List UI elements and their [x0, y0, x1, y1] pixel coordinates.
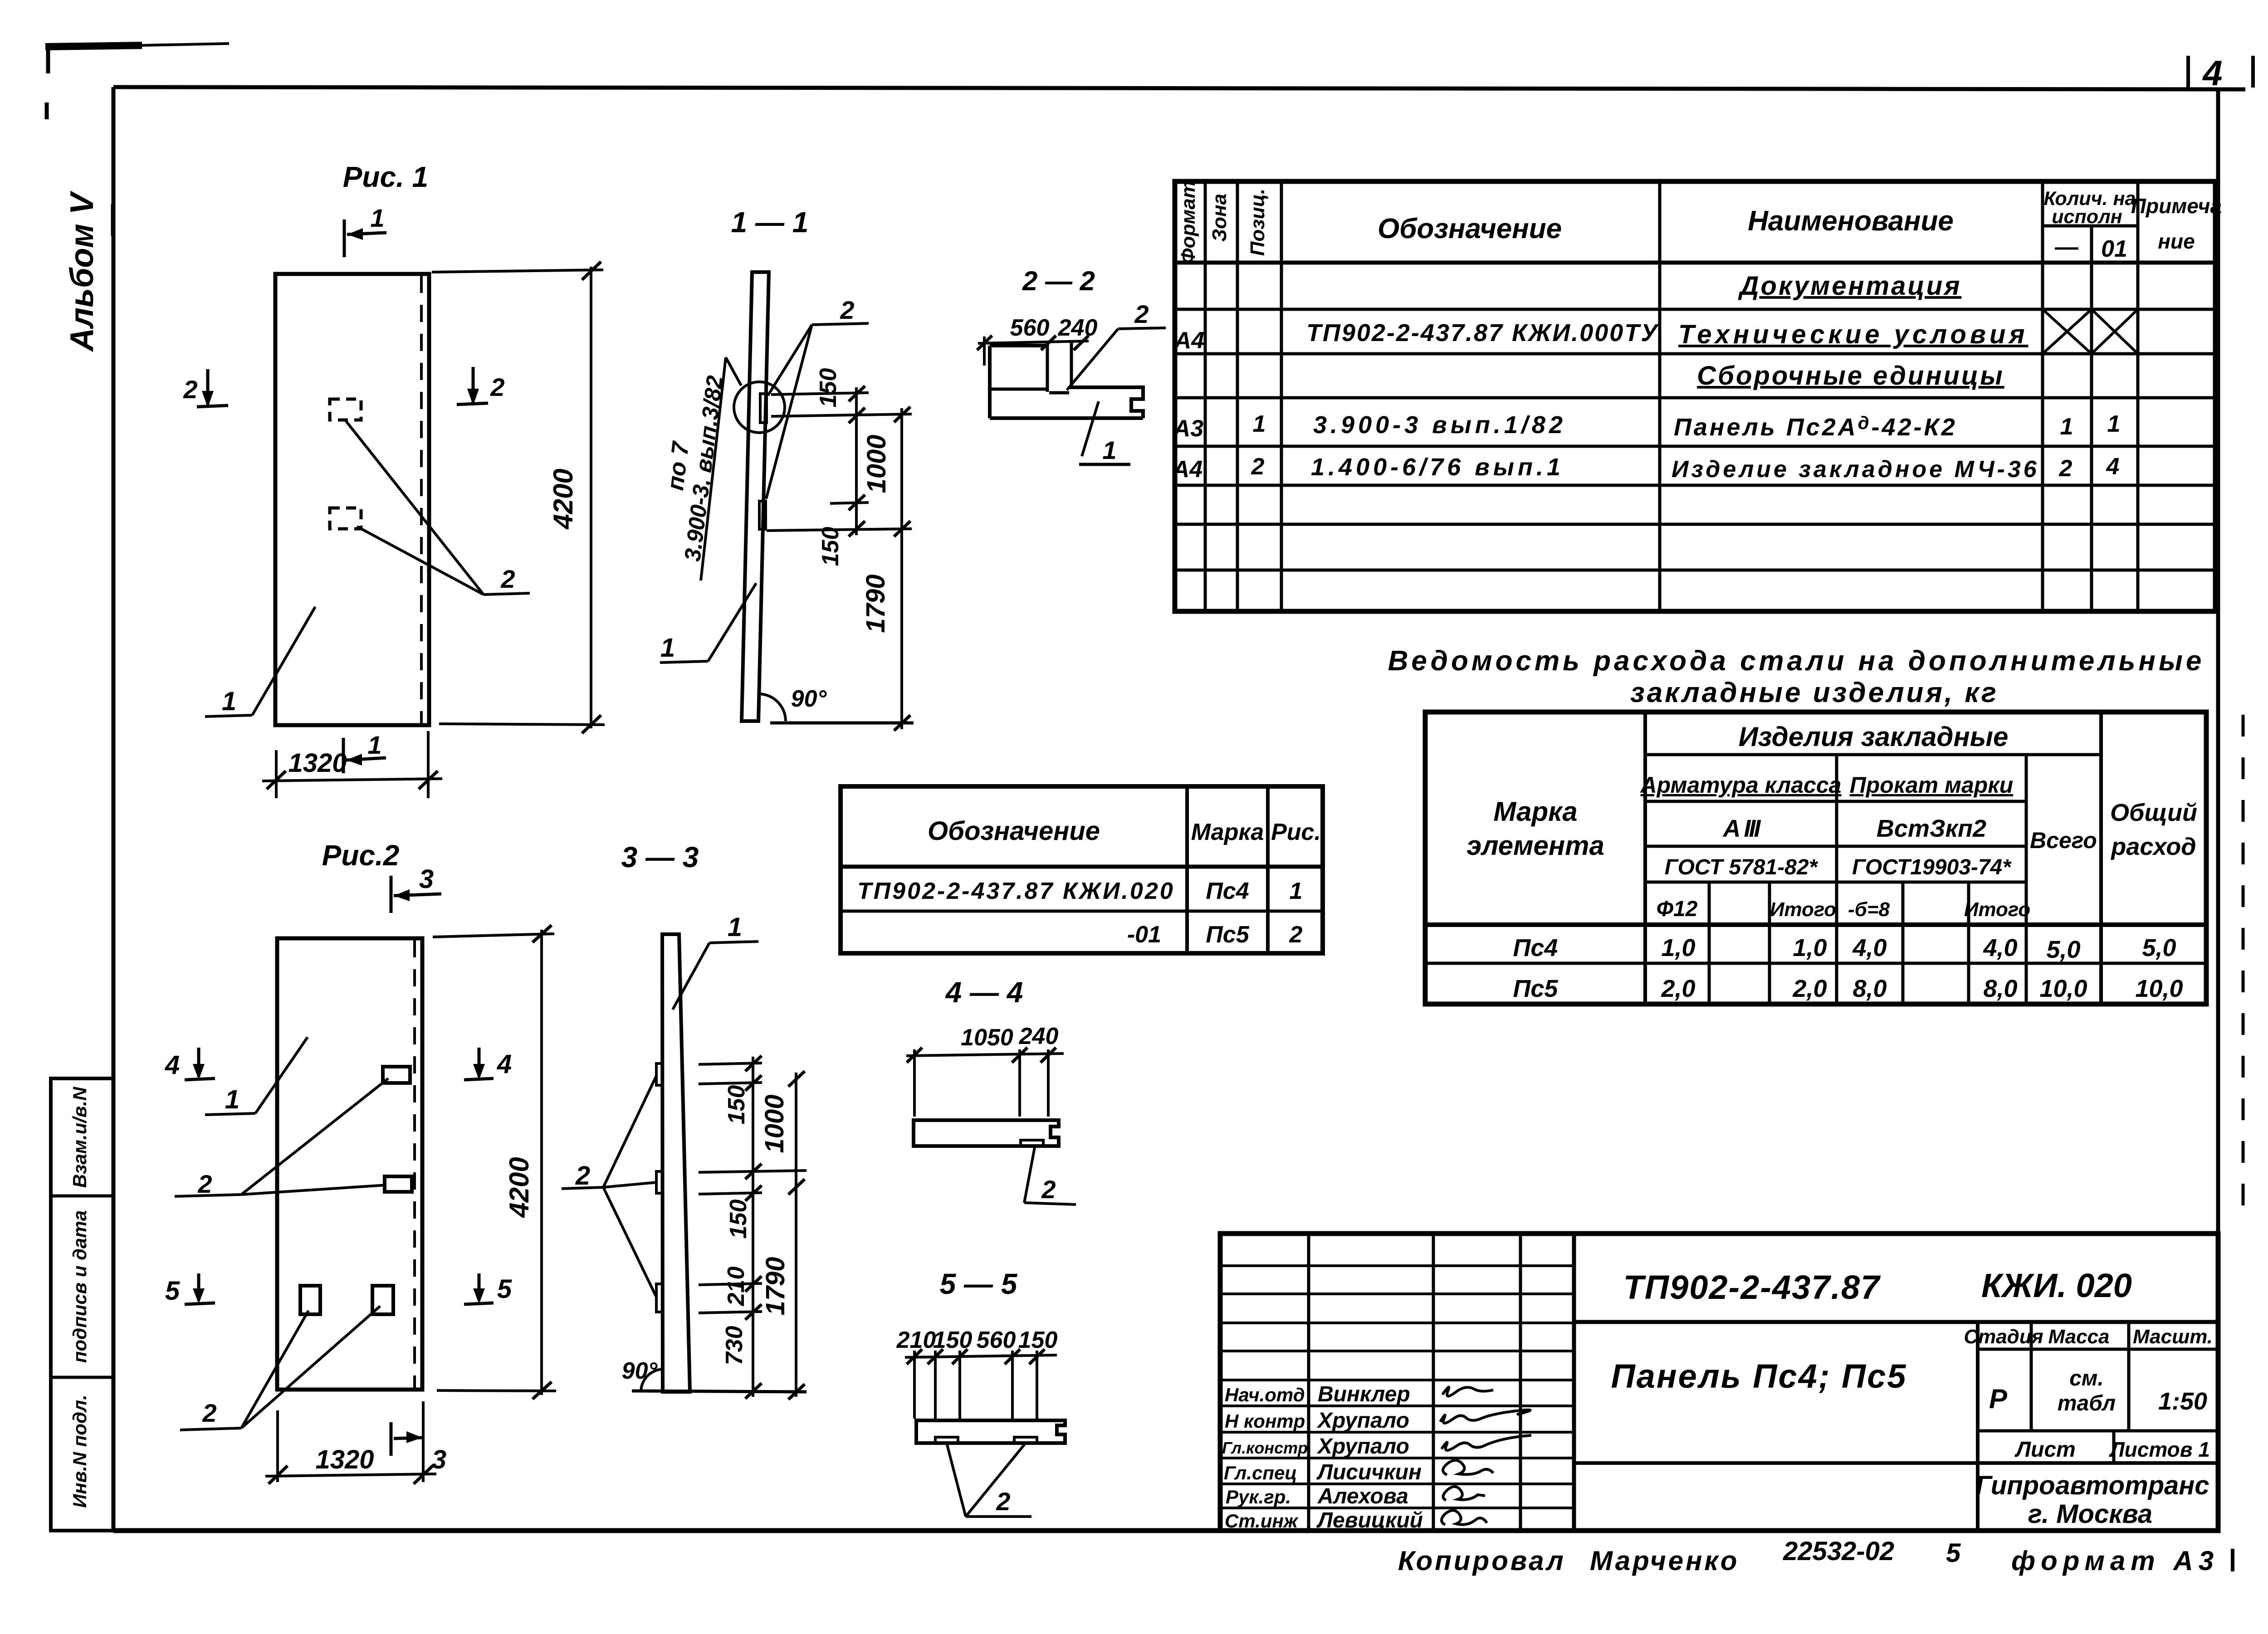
svg-text:Ведомость расхода стали на до: Ведомость расхода стали на дополнительны… [1388, 645, 2205, 677]
svg-text:Гл.спец: Гл.спец [1224, 1462, 1297, 1483]
embedded plate (hidden) lower [330, 508, 361, 529]
svg-text:1: 1 [222, 687, 236, 716]
view mark 4 (right) [478, 1048, 481, 1077]
svg-text:Арматура класса: Арматура класса [1640, 772, 1842, 798]
svg-text:01: 01 [2101, 236, 2127, 262]
svg-text:Документация: Документация [1738, 271, 1962, 301]
dim line 1000/1790 [795, 1073, 797, 1397]
section mark 1 (bottom) [342, 738, 345, 773]
svg-text:Прокат марки: Прокат марки [1850, 772, 2013, 798]
slanted ref text по 7 / 3.900-3, вып.3/82 [701, 357, 726, 580]
spec table row lines [1175, 261, 2215, 265]
svg-text:2: 2 [183, 375, 197, 404]
embedded plate mid right [385, 1176, 412, 1192]
svg-text:4,0: 4,0 [1852, 934, 1887, 961]
svg-text:Лист: Лист [2014, 1438, 2076, 1462]
section mark 1 (top) [343, 219, 346, 257]
svg-text:1320: 1320 [288, 748, 347, 778]
svg-text:10,0: 10,0 [2039, 975, 2087, 1002]
svg-text:2: 2 [840, 296, 854, 324]
svg-text:150: 150 [815, 368, 841, 408]
embedded plate bottom right [372, 1286, 393, 1314]
svg-text:4: 4 [2202, 53, 2222, 93]
dim 1320 witness lines [276, 1410, 279, 1482]
embedded plate notch right [1014, 1437, 1037, 1443]
svg-text:1: 1 [660, 633, 675, 663]
corner crop mark top-left [45, 44, 229, 119]
svg-text:2: 2 [2059, 455, 2072, 482]
dim 4200 extension lines [433, 934, 554, 937]
svg-text:2: 2 [197, 1170, 212, 1198]
dim 4200 line [540, 930, 543, 1395]
svg-text:5,0: 5,0 [2142, 934, 2176, 961]
panel bar in section [662, 934, 690, 1392]
marks table grid [1185, 786, 1189, 953]
svg-text:А3: А3 [1173, 415, 1204, 442]
panel cross-section slab [916, 1420, 1065, 1443]
svg-text:Обозначение: Обозначение [1378, 213, 1562, 244]
witness lines dim chain [771, 393, 869, 395]
svg-text:Зона: Зона [1208, 194, 1231, 242]
svg-text:Марченко: Марченко [1590, 1546, 1739, 1576]
svg-text:2: 2 [575, 1161, 590, 1190]
svg-text:ГОСТ 5781-82*: ГОСТ 5781-82* [1665, 855, 1818, 879]
dim chain 150/150/210/730 [752, 1057, 754, 1397]
hidden edge dashed [413, 940, 416, 1388]
svg-text:Пс4: Пс4 [1206, 878, 1249, 904]
dim line [905, 1355, 1057, 1357]
svg-text:Панель Пс4; Пс5: Панель Пс4; Пс5 [1611, 1357, 1907, 1395]
svg-text:ВстЗкп2: ВстЗкп2 [1877, 815, 1986, 842]
90 degree arc [641, 1369, 664, 1391]
panel cross-section slab [914, 1120, 1059, 1146]
svg-text:г. Москва: г. Москва [2028, 1499, 2152, 1529]
svg-text:Рис.: Рис. [1271, 819, 1321, 845]
svg-text:Примеча: Примеча [2131, 194, 2222, 218]
svg-text:—: — [2054, 234, 2079, 260]
embedded plate top [656, 1063, 663, 1085]
doc number band [1574, 1320, 2218, 1324]
signatures squiggles [1442, 1387, 1493, 1396]
svg-text:Инв.N подл.: Инв.N подл. [69, 1395, 90, 1508]
svg-text:КЖИ. 020: КЖИ. 020 [1981, 1267, 2132, 1304]
svg-text:Рук.гр.: Рук.гр. [1226, 1486, 1291, 1507]
svg-text:Изделия закладные: Изделия закладные [1739, 722, 2009, 752]
bottom margin texts [1398, 1536, 2219, 1576]
leader label 2 [1067, 329, 1118, 390]
svg-text:подписв и дата: подписв и дата [69, 1210, 90, 1363]
svg-text:Копировал: Копировал [1398, 1546, 1566, 1576]
dim line [978, 341, 1089, 343]
svg-text:1.400-6/76 вып.1: 1.400-6/76 вып.1 [1311, 454, 1564, 481]
steel table column lines [1643, 712, 1647, 1004]
svg-text:240: 240 [1019, 1023, 1059, 1049]
steel table outer border [1425, 712, 2206, 1004]
svg-text:Гл.констр: Гл.констр [1222, 1439, 1308, 1457]
left signature grid verticals [1307, 1234, 1310, 1531]
dim 1320 line [262, 779, 442, 781]
svg-text:1790: 1790 [761, 1257, 790, 1315]
section mark 3 (top) [390, 876, 393, 913]
embedded plate (hidden) upper [330, 399, 361, 420]
svg-text:1: 1 [728, 912, 742, 942]
svg-text:Нач.отд: Нач.отд [1225, 1384, 1305, 1405]
svg-text:150: 150 [723, 1085, 750, 1125]
left witness [983, 337, 986, 366]
embedded plate middle [656, 1171, 663, 1193]
embedded plate notch left [935, 1437, 958, 1443]
dim line 1000/1790 [900, 408, 903, 729]
dim 4200 line [590, 267, 592, 728]
svg-text:1,0: 1,0 [1661, 934, 1695, 961]
title block outer border [1220, 1234, 2218, 1531]
svg-text:Пс5: Пс5 [1206, 922, 1249, 948]
svg-text:ТП902-2-437.87 КЖИ.020: ТП902-2-437.87 КЖИ.020 [857, 878, 1175, 904]
svg-text:210: 210 [723, 1267, 749, 1307]
svg-text:Сборочные единицы: Сборочные единицы [1697, 361, 2004, 390]
svg-text:Винклер: Винклер [1318, 1382, 1410, 1406]
steel table row lines [1645, 753, 2101, 756]
leader label 2 [812, 323, 869, 325]
svg-text:2: 2 [202, 1399, 216, 1427]
svg-text:Обозначение: Обозначение [928, 816, 1100, 846]
svg-text:Хрупало: Хрупало [1316, 1434, 1409, 1458]
svg-text:4200: 4200 [504, 1157, 534, 1218]
svg-text:Гипроавтотранс: Гипроавтотранс [1975, 1471, 2209, 1500]
svg-text:Позиц.: Позиц. [1246, 189, 1269, 256]
leader label 1 [709, 941, 758, 943]
svg-text:1050: 1050 [961, 1024, 1013, 1051]
svg-text:5: 5 [497, 1274, 512, 1304]
dim 1320 witness lines [275, 750, 278, 798]
svg-text:2: 2 [1041, 1175, 1056, 1204]
svg-text:Наименование: Наименование [1748, 205, 1954, 237]
embedded plate top right [383, 1067, 410, 1083]
svg-text:1320: 1320 [315, 1445, 374, 1474]
svg-text:Ст.инж: Ст.инж [1225, 1510, 1299, 1532]
witness lines [913, 1049, 916, 1117]
svg-text:3: 3 [432, 1445, 446, 1474]
svg-text:1:50: 1:50 [2158, 1388, 2207, 1415]
svg-text:2 — 2: 2 — 2 [1022, 266, 1095, 296]
hidden edge dashed [420, 276, 423, 723]
panel outline [275, 274, 429, 725]
svg-text:3 — 3: 3 — 3 [621, 841, 699, 873]
svg-text:Хрупало: Хрупало [1316, 1409, 1409, 1433]
spec table outer border [1175, 181, 2215, 611]
svg-text:4: 4 [165, 1050, 180, 1080]
embedded plate notch [1021, 1140, 1043, 1146]
leader to label 2 [345, 419, 484, 595]
witness lines [913, 1351, 916, 1419]
panel bar in section [742, 272, 769, 721]
leader label 1 [660, 661, 708, 663]
view mark 2 (right) [472, 367, 475, 402]
svg-text:1: 1 [1102, 436, 1116, 464]
svg-text:4: 4 [2106, 454, 2120, 480]
svg-text:закладные изделия, кг: закладные изделия, кг [1630, 677, 1999, 708]
svg-text:5: 5 [165, 1276, 180, 1306]
svg-text:ГОСТ19903-74*: ГОСТ19903-74* [1852, 855, 2012, 879]
Альбом V vertical label [64, 190, 112, 352]
spec table column lines [1204, 181, 1207, 611]
groove with embedded strip [1046, 342, 1049, 392]
svg-text:Пс5: Пс5 [1513, 975, 1559, 1002]
svg-text:1000: 1000 [862, 434, 891, 493]
svg-text:1790: 1790 [861, 574, 890, 633]
svg-text:150: 150 [1018, 1327, 1058, 1353]
svg-text:1: 1 [2107, 411, 2121, 437]
svg-text:1: 1 [2060, 414, 2073, 440]
svg-text:5,0: 5,0 [2046, 936, 2080, 963]
svg-text:Формат: Формат [1177, 180, 1199, 264]
svg-text:табл: табл [2058, 1391, 2116, 1415]
svg-text:3.900-3 вып.1/82: 3.900-3 вып.1/82 [1313, 411, 1566, 439]
svg-text:Пс4: Пс4 [1513, 934, 1558, 961]
detail circle [734, 382, 785, 433]
svg-text:2: 2 [996, 1487, 1010, 1516]
svg-text:Альбом V: Альбом V [64, 190, 100, 352]
svg-text:2: 2 [1289, 922, 1303, 948]
svg-text:А4: А4 [1172, 456, 1203, 483]
view mark 5 (right) [478, 1273, 481, 1301]
stadia columns [1976, 1322, 1980, 1531]
left signature grid rows [1220, 1264, 1574, 1267]
marks table outer border [841, 786, 1323, 953]
svg-text:Лисичкин: Лисичкин [1316, 1460, 1422, 1484]
svg-text:22532-02: 22532-02 [1783, 1536, 1894, 1566]
svg-text:Изделие закладное МЧ-36: Изделие закладное МЧ-36 [1672, 456, 2039, 483]
svg-text:ние: ние [2158, 229, 2195, 253]
svg-text:-01: -01 [1127, 922, 1161, 948]
leader label 2 [1024, 1147, 1035, 1203]
svg-text:730: 730 [721, 1326, 748, 1366]
svg-text:см.: см. [2069, 1366, 2104, 1390]
svg-text:90°: 90° [791, 686, 827, 712]
list row [2112, 1431, 2116, 1463]
svg-text:исполн: исполн [2052, 206, 2122, 228]
svg-text:Масса: Масса [2048, 1326, 2109, 1348]
dim line 150/150 chain [855, 387, 858, 535]
embedded plate upper (in circle) [760, 394, 767, 423]
cross X in qty cells [2043, 309, 2092, 354]
ground line [770, 722, 914, 725]
svg-text:2,0: 2,0 [1792, 975, 1827, 1002]
svg-text:1 — 1: 1 — 1 [731, 206, 809, 239]
dim 1320 line [265, 1474, 436, 1476]
svg-text:-б=8: -б=8 [1848, 898, 1890, 921]
svg-text:Левицкий: Левицкий [1316, 1508, 1423, 1532]
embedded plate bottom left [300, 1286, 320, 1314]
panel outline [277, 938, 422, 1390]
svg-text:2: 2 [1251, 454, 1265, 480]
svg-text:ТП902-2-437.87: ТП902-2-437.87 [1623, 1268, 1882, 1306]
svg-text:Марка: Марка [1191, 819, 1264, 845]
dim line [906, 1054, 1064, 1056]
leader label 1 [205, 1113, 255, 1115]
svg-text:Рис. 1: Рис. 1 [343, 161, 429, 193]
svg-text:4,0: 4,0 [1983, 934, 2017, 961]
svg-text:Марка: Марка [1493, 796, 1577, 827]
svg-text:210: 210 [896, 1327, 936, 1353]
svg-text:А4: А4 [1173, 327, 1205, 354]
leader label 1 [1082, 401, 1099, 456]
svg-text:2: 2 [500, 565, 515, 593]
svg-text:Взам.и/в.N: Взам.и/в.N [69, 1086, 90, 1188]
svg-text:Всего: Всего [2030, 828, 2097, 853]
svg-text:150: 150 [725, 1200, 752, 1239]
svg-text:А III: А III [1722, 815, 1761, 842]
ground line [632, 1391, 807, 1392]
svg-text:Алехова: Алехова [1317, 1484, 1408, 1508]
svg-text:элемента: элемента [1466, 830, 1604, 861]
svg-text:Общий: Общий [2110, 799, 2197, 826]
leader label 2 [947, 1443, 966, 1517]
panel end cross-section [990, 344, 1047, 347]
90 degree arc [758, 694, 786, 721]
dim 4200 extension lines [432, 270, 603, 272]
embedded plate bottom [656, 1284, 663, 1312]
svg-text:Листов 1: Листов 1 [2109, 1438, 2210, 1461]
svg-text:1: 1 [367, 731, 381, 759]
svg-text:1: 1 [1253, 411, 1266, 437]
svg-text:1: 1 [225, 1085, 240, 1114]
svg-text:10,0: 10,0 [2135, 975, 2183, 1002]
svg-text:1000: 1000 [760, 1094, 789, 1153]
svg-text:8,0: 8,0 [1853, 975, 1887, 1002]
svg-text:8,0: 8,0 [1983, 975, 2017, 1002]
svg-text:150: 150 [817, 527, 844, 566]
svg-text:560: 560 [1010, 315, 1050, 341]
svg-text:5 — 5: 5 — 5 [940, 1268, 1018, 1300]
svg-text:4 — 4: 4 — 4 [945, 976, 1023, 1009]
svg-text:2,0: 2,0 [1661, 975, 1695, 1002]
svg-text:Панель Пс2Ад-42-К2: Панель Пс2Ад-42-К2 [1674, 413, 1957, 441]
svg-text:Технические условия: Технические условия [1678, 320, 2028, 349]
svg-text:1: 1 [370, 204, 384, 232]
svg-text:240: 240 [1058, 315, 1098, 341]
right margin dashed fold line [2233, 715, 2243, 1571]
page number 4 top right [2188, 53, 2253, 93]
svg-text:Итого: Итого [1770, 898, 1836, 921]
svg-text:формат А3: формат А3 [2011, 1546, 2219, 1576]
svg-text:5: 5 [1946, 1538, 1961, 1568]
svg-text:Масшт.: Масшт. [2133, 1326, 2213, 1348]
leader to label 1 [205, 715, 252, 717]
svg-text:1: 1 [1290, 878, 1303, 904]
svg-text:2: 2 [490, 373, 504, 401]
svg-text:ТП902-2-437.87 КЖИ.000ТУ: ТП902-2-437.87 КЖИ.000ТУ [1306, 319, 1659, 346]
svg-text:4: 4 [497, 1049, 512, 1079]
svg-text:расход: расход [2110, 833, 2196, 860]
svg-text:Стадия: Стадия [1964, 1326, 2043, 1348]
svg-text:90°: 90° [622, 1358, 658, 1384]
embedded plate lower [759, 501, 766, 529]
svg-text:Ф12: Ф12 [1657, 897, 1698, 921]
svg-text:560: 560 [977, 1327, 1016, 1353]
section mark 3 (bottom) [390, 1422, 393, 1456]
svg-text:1,0: 1,0 [1793, 934, 1827, 961]
svg-text:2: 2 [1134, 300, 1149, 328]
svg-text:Рис.2: Рис.2 [322, 839, 400, 872]
svg-text:Н контр: Н контр [1225, 1410, 1305, 1432]
left margin boxes [51, 1078, 113, 1531]
svg-text:4200: 4200 [548, 468, 578, 529]
svg-text:Р: Р [1989, 1384, 2008, 1414]
svg-text:3: 3 [419, 864, 434, 894]
svg-text:Итого: Итого [1964, 898, 2030, 921]
witness lines [699, 1063, 762, 1064]
